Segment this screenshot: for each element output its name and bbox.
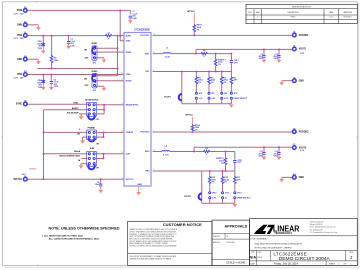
- svg-text:1. ALL RESISTORS ARE IN OHMS,: 1. ALL RESISTORS ARE IN OHMS, 0402.: [42, 235, 84, 238]
- svg-text:OF: OF: [344, 263, 346, 265]
- svg-text:2.5V: 2.5V: [224, 98, 229, 100]
- svg-text:SYNC: SYNC: [16, 104, 23, 106]
- svg-text:1.2V: 1.2V: [199, 98, 204, 100]
- svg-text:PGOOD1: PGOOD1: [299, 35, 309, 37]
- svg-text:12: 12: [153, 150, 155, 152]
- svg-text:PGOOD2: PGOOD2: [140, 132, 150, 134]
- svg-text:3.7V - 15V: 3.7V - 15V: [14, 77, 25, 79]
- svg-text:INTVCC: INTVCC: [185, 115, 193, 117]
- svg-text:INTVCC: INTVCC: [126, 179, 134, 181]
- svg-text:E7: E7: [293, 144, 295, 146]
- svg-text:1206: 1206: [54, 86, 58, 88]
- svg-text:USER SELECT: USER SELECT: [237, 198, 251, 200]
- svg-text:VIN2: VIN2: [17, 74, 23, 76]
- svg-text:VIN2: VIN2: [126, 74, 132, 76]
- svg-text:1%: 1%: [212, 182, 215, 184]
- svg-text:N/A: N/A: [250, 256, 257, 260]
- svg-text:JP2: JP2: [93, 90, 96, 92]
- svg-text:REV: REV: [256, 12, 259, 14]
- svg-text:GND: GND: [299, 80, 304, 82]
- svg-text:R6: R6: [203, 50, 205, 52]
- svg-text:VIN1: VIN1: [17, 35, 23, 37]
- svg-text:WITH ULTRA LOW QUIESCENT CURRE: WITH ULTRA LOW QUIESCENT CURRENT: [254, 247, 292, 250]
- svg-text:E13: E13: [24, 56, 27, 58]
- svg-text:7343: 7343: [38, 86, 42, 89]
- svg-text:0805: 0805: [274, 156, 278, 158]
- svg-text:3.3V: 3.3V: [212, 198, 217, 200]
- svg-text:APPROVALS: APPROVALS: [224, 224, 247, 228]
- svg-text:PULSE-SKIP: PULSE-SKIP: [67, 112, 79, 114]
- svg-text:DUAL WIDE VIN SYNCHRONOUS BUCK: DUAL WIDE VIN SYNCHRONOUS BUCK REGULATOR: [254, 243, 302, 246]
- svg-text:1%: 1%: [224, 182, 227, 184]
- svg-text:JP6: JP6: [199, 93, 202, 95]
- svg-text:VOUT1: VOUT1: [299, 49, 307, 51]
- svg-text:2: 2: [257, 17, 258, 19]
- svg-text:1%: 1%: [195, 129, 198, 131]
- svg-text:SYNC: SYNC: [73, 103, 79, 105]
- svg-text:3.3uH: 3.3uH: [165, 56, 171, 58]
- svg-text:GND: GND: [17, 25, 22, 27]
- svg-text:E11: E11: [24, 7, 27, 9]
- svg-text:CUSTOMER NOTICE: CUSTOMER NOTICE: [163, 222, 202, 227]
- svg-text:ON: ON: [84, 78, 88, 80]
- svg-text:16: 16: [153, 33, 155, 35]
- svg-text:15: 15: [153, 52, 155, 54]
- svg-text:1%: 1%: [218, 64, 221, 66]
- svg-text:GND: GND: [137, 184, 142, 186]
- svg-text:DESCRIPTION: DESCRIPTION: [288, 12, 300, 14]
- svg-text:500mA: 500mA: [74, 150, 81, 153]
- svg-text:4.7uH: 4.7uH: [163, 153, 169, 156]
- svg-text:RUN2: RUN2: [92, 71, 99, 73]
- svg-text:VOUT2: VOUT2: [184, 196, 192, 198]
- svg-text:JP7: JP7: [211, 93, 214, 95]
- svg-text:INTVCC: INTVCC: [187, 11, 195, 13]
- svg-text:R7: R7: [107, 33, 109, 35]
- svg-text:11: 11: [121, 79, 123, 81]
- svg-text:INTVCC: INTVCC: [14, 179, 23, 181]
- svg-text:DEMO CIRCUIT 2004A: DEMO CIRCUIT 2004A: [279, 256, 330, 261]
- svg-text:GND: GND: [17, 59, 22, 61]
- svg-text:USER SELECT: USER SELECT: [234, 98, 248, 100]
- svg-text:E3: E3: [24, 176, 26, 178]
- svg-text:VIN1: VIN1: [126, 40, 132, 42]
- svg-text:PGOOD2: PGOOD2: [299, 131, 309, 133]
- svg-text:0: 0: [79, 129, 80, 131]
- svg-text:PGOOD1: PGOOD1: [140, 35, 150, 37]
- svg-text:RUN2: RUN2: [126, 80, 133, 82]
- svg-text:SHEET: SHEET: [329, 263, 335, 265]
- svg-text:REVISION HISTORY: REVISION HISTORY: [292, 7, 312, 9]
- svg-text:1.8V: 1.8V: [211, 98, 216, 100]
- svg-text:1%: 1%: [211, 82, 214, 84]
- svg-text:SW2: SW2: [145, 151, 150, 153]
- svg-text:E12: E12: [24, 71, 27, 73]
- svg-text:SW1: SW1: [145, 53, 150, 55]
- svg-text:E2: E2: [24, 101, 26, 103]
- svg-text:0805: 0805: [259, 156, 263, 158]
- svg-text:E5: E5: [293, 46, 295, 48]
- svg-text:13: 13: [121, 152, 123, 154]
- svg-text:3.7V - 15V: 3.7V - 15V: [14, 38, 25, 40]
- svg-text:DATE:: DATE:: [250, 263, 255, 266]
- svg-text:INTVCC: INTVCC: [30, 169, 38, 171]
- svg-text:TITLE: SCHEMATIC: TITLE: SCHEMATIC: [250, 237, 268, 240]
- svg-text:SIZE: SIZE: [251, 252, 254, 254]
- svg-text:10: 10: [121, 73, 123, 75]
- svg-text:1: 1: [351, 263, 352, 265]
- svg-text:500mA CHARGE ONLY: 500mA CHARGE ONLY: [59, 155, 81, 158]
- svg-text:JP12: JP12: [237, 193, 242, 195]
- svg-text:E6: E6: [293, 77, 295, 79]
- svg-text:NL: NL: [227, 236, 229, 238]
- svg-text:L2: L2: [165, 145, 167, 147]
- svg-text:1: 1: [339, 263, 340, 265]
- svg-text:1%: 1%: [197, 29, 200, 31]
- svg-text:0: 0: [108, 39, 109, 41]
- svg-text:180: 180: [77, 134, 80, 136]
- svg-text:SVIN: SVIN: [126, 35, 131, 37]
- svg-text:GND: GND: [299, 177, 304, 179]
- svg-text:E9: E9: [24, 21, 26, 23]
- svg-text:0: 0: [204, 56, 205, 58]
- svg-text:PHASE: PHASE: [88, 127, 96, 130]
- svg-text:Fax: (408)434-0507: Fax: (408)434-0507: [310, 229, 323, 231]
- svg-text:0: 0: [206, 154, 207, 156]
- svg-text:JP3: JP3: [96, 119, 99, 121]
- svg-text:1.5V: 1.5V: [300, 53, 305, 55]
- svg-text:Friday, July 18, 2014: Friday, July 18, 2014: [274, 262, 298, 266]
- svg-text:1%: 1%: [221, 163, 224, 165]
- svg-text:JP9: JP9: [234, 93, 237, 95]
- svg-text:0805: 0805: [274, 58, 278, 60]
- svg-text:PHASE: PHASE: [126, 131, 134, 134]
- svg-text:3.7V - 15V: 3.7V - 15V: [14, 13, 25, 15]
- svg-text:1206: 1206: [70, 45, 74, 47]
- svg-text:1%: 1%: [198, 82, 201, 84]
- svg-text:SVIN: SVIN: [17, 10, 23, 12]
- svg-text:RUN1: RUN1: [126, 52, 133, 54]
- svg-text:MODE/SYNC: MODE/SYNC: [85, 100, 98, 102]
- svg-text:ILIM: ILIM: [90, 148, 94, 150]
- svg-text:3.3V: 3.3V: [300, 150, 305, 152]
- svg-text:3.6V: 3.6V: [22, 174, 27, 176]
- svg-text:ALL CAPACITORS ARE IN MICROFAR: ALL CAPACITORS ARE IN MICROFARADS, 0402.: [49, 237, 100, 240]
- svg-text:7-18-14: 7-18-14: [329, 17, 334, 19]
- svg-text:17: 17: [140, 189, 142, 191]
- svg-text:E1: E1: [24, 32, 26, 34]
- svg-text:E10: E10: [293, 174, 296, 176]
- svg-text:7343: 7343: [37, 47, 41, 50]
- svg-text:1206: 1206: [132, 18, 136, 20]
- svg-text:ON: ON: [84, 49, 88, 51]
- svg-text:E8: E8: [293, 128, 295, 130]
- svg-text:BURST: BURST: [72, 108, 79, 110]
- svg-text:VOUT2: VOUT2: [299, 147, 307, 149]
- svg-text:PCB ENG.: PCB ENG.: [213, 236, 221, 238]
- svg-text:0805: 0805: [259, 58, 263, 60]
- svg-text:ILIM: ILIM: [126, 154, 130, 156]
- svg-text:NOTE: UNLESS OTHERWISE SPECIFI: NOTE: UNLESS OTHERWISE SPECIFIED: [49, 226, 121, 230]
- svg-text:1%: 1%: [224, 82, 227, 84]
- svg-text:JP10: JP10: [212, 193, 217, 195]
- svg-text:SCALE = NONE: SCALE = NONE: [226, 261, 245, 265]
- svg-text:R9: R9: [205, 148, 207, 150]
- svg-text:REV.: REV.: [350, 252, 354, 254]
- svg-text:RUN1: RUN1: [92, 43, 99, 45]
- svg-text:IC NO.: IC NO.: [257, 252, 262, 254]
- svg-text:MODE/SYNC: MODE/SYNC: [126, 105, 139, 107]
- svg-text:LTC3622EMSE: LTC3622EMSE: [134, 30, 150, 32]
- svg-text:VOUT1: VOUT1: [164, 96, 172, 98]
- svg-text:PCB NO.: PCB NO.: [257, 257, 263, 259]
- svg-text:TECHNOLOGY: TECHNOLOGY: [274, 232, 292, 235]
